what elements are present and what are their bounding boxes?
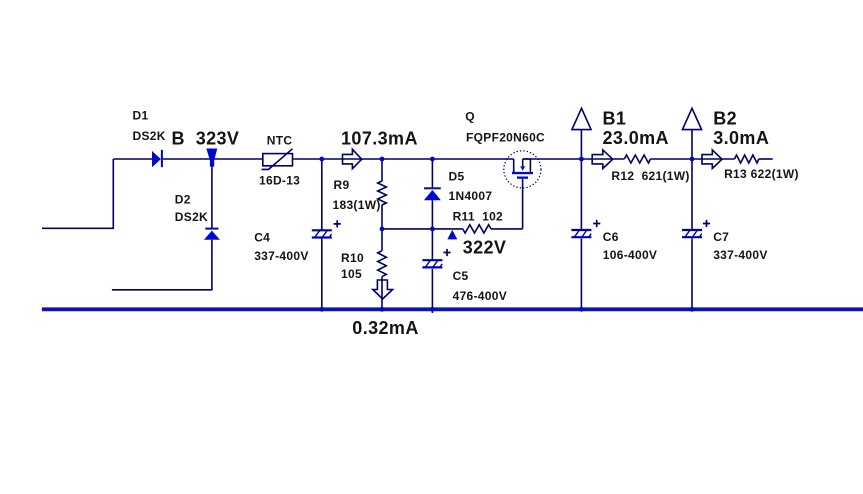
svg-text:B 323V: B 323V — [172, 129, 240, 149]
svg-text:C5: C5 — [453, 269, 469, 283]
svg-text:Q: Q — [465, 109, 475, 123]
svg-text:D2: D2 — [175, 192, 191, 206]
svg-text:16D-13: 16D-13 — [259, 173, 300, 187]
svg-text:23.0mA: 23.0mA — [603, 128, 669, 148]
svg-text:C6: C6 — [603, 230, 619, 244]
svg-text:337-400V: 337-400V — [254, 249, 308, 263]
svg-text:R12 621(1W): R12 621(1W) — [611, 169, 689, 183]
svg-text:DS2K: DS2K — [133, 129, 166, 143]
svg-text:D1: D1 — [133, 109, 149, 123]
svg-text:C7: C7 — [713, 230, 729, 244]
svg-text:R10: R10 — [341, 251, 364, 265]
svg-text:R9: R9 — [334, 178, 350, 192]
svg-text:476-400V: 476-400V — [453, 289, 507, 303]
svg-text:B1: B1 — [603, 109, 627, 129]
svg-text:D5: D5 — [449, 170, 465, 184]
svg-text:B2: B2 — [713, 109, 737, 129]
svg-text:183(1W): 183(1W) — [333, 198, 381, 212]
svg-text:0.32mA: 0.32mA — [352, 318, 418, 338]
svg-text:3.0mA: 3.0mA — [713, 128, 769, 148]
svg-text:107.3mA: 107.3mA — [341, 128, 418, 148]
svg-text:106-400V: 106-400V — [603, 248, 657, 262]
svg-text:DS2K: DS2K — [175, 210, 208, 224]
svg-text:C4: C4 — [254, 231, 270, 245]
svg-text:R13 622(1W): R13 622(1W) — [724, 167, 799, 181]
svg-text:105: 105 — [341, 267, 362, 281]
svg-text:337-400V: 337-400V — [713, 248, 767, 262]
svg-text:NTC: NTC — [267, 134, 293, 148]
svg-text:FQPF20N60C: FQPF20N60C — [466, 130, 545, 144]
svg-text:322V: 322V — [463, 238, 507, 258]
svg-text:1N4007: 1N4007 — [449, 189, 493, 203]
svg-text:R11 102: R11 102 — [453, 209, 503, 223]
